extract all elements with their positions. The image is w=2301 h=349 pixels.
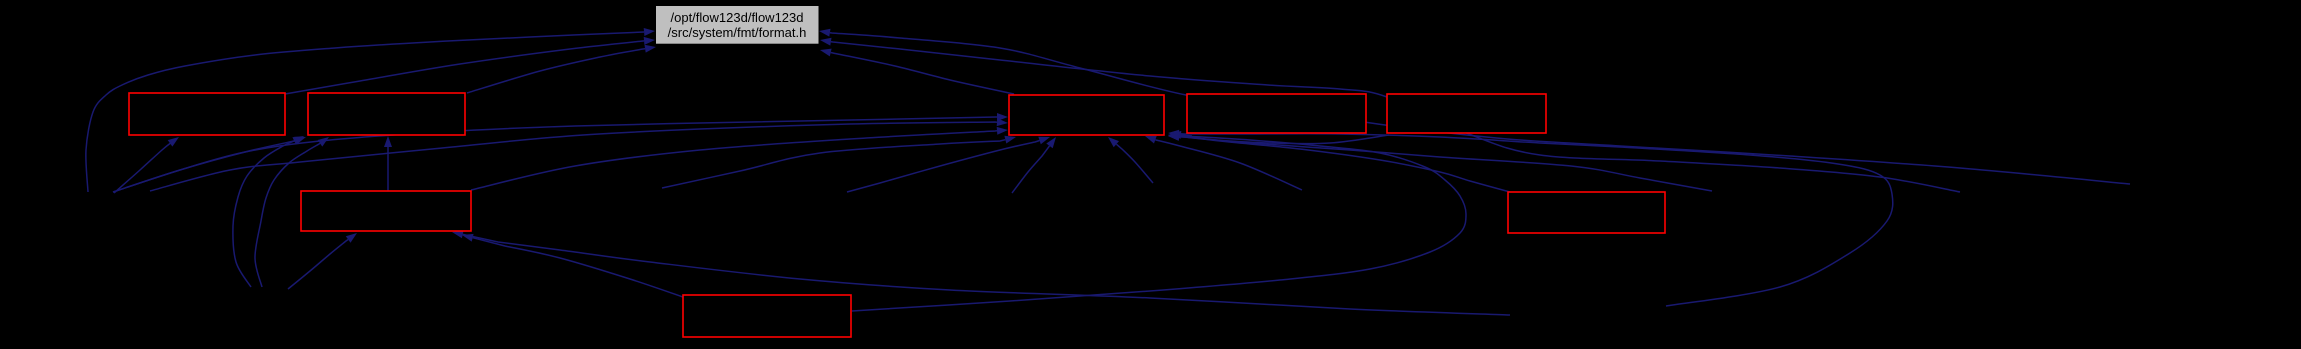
edge invisible node L2 to B2 (left C-curve) (233, 137, 306, 287)
edge invisible node L2 to B6 (288, 233, 357, 289)
edge right invisible node to B3 (1168, 133, 1712, 191)
edge B8 to B6 (462, 234, 683, 297)
edge B5 to B3 (1168, 133, 1389, 144)
svg-text:/opt/flow123d/flow123d: /opt/flow123d/flow123d (671, 10, 804, 25)
node B5 (red box) (1387, 94, 1546, 133)
svg-text:/src/system/fmt/format.h: /src/system/fmt/format.h (668, 25, 807, 40)
edge B4 to B3 (1170, 131, 1192, 139)
edge invisible node L1 to B1 (114, 137, 179, 193)
node B3 (red box, center) (1009, 95, 1164, 135)
edge invisible node to B3 (long flat line) (150, 118, 1008, 191)
edge invisible node to B3 bottom 4 (1108, 137, 1153, 183)
edge right invisible node to format.h (long curve behind B5) (820, 38, 1960, 192)
node B4 (red box) (1187, 94, 1366, 133)
edge B1 to format.h (285, 37, 655, 94)
edge invisible node to B3 bottom 2 (847, 137, 1050, 192)
node format.h (gray root box with label) (656, 6, 819, 44)
edge invisible node L1 to B2 (113, 136, 304, 192)
edge B3 to format.h (820, 49, 1014, 94)
edge B2 to format.h (467, 45, 656, 93)
edge far-right invisible node to format.h (long curve behind B4) (819, 29, 2130, 184)
edge invisible node to B3 bottom 1 (shallow from left) (662, 136, 1016, 188)
node B6 (red box) (301, 191, 471, 231)
node B2 (red box) (308, 93, 465, 135)
edge bottom invisible node to B3 (far-right hairpin) (1168, 130, 1893, 306)
edge far bottom invisible node to B6 (long bottom line) (452, 230, 1510, 315)
edge invisible node to B3 bottom 3 (steep) (1012, 137, 1056, 193)
edge B7 to B3 (1168, 132, 1510, 192)
edge invisible node L1 to format.h (big left curve) (86, 28, 655, 192)
edge invisible node L2 to B2 (right C-curve) (255, 137, 329, 287)
node B7 (red box) (1508, 192, 1665, 233)
edge B6 to B3 (471, 127, 1008, 190)
node B8 (red box, bottom) (683, 295, 851, 337)
edge invisible node L1 to B3 (upper long line) (113, 113, 1008, 192)
edge B8 to B3 (big lower loop) (852, 132, 1466, 311)
edge invisible node to B3 bottom 5 (1145, 136, 1302, 190)
edge B6 to B2 (vertical) (384, 136, 392, 191)
node B1 (red box) (129, 93, 285, 135)
